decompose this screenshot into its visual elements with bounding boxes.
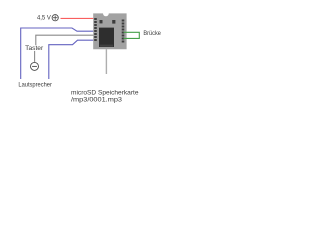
wire gray button to module	[36, 35, 95, 45]
svg-text:/mp3/0001.mp3: /mp3/0001.mp3	[71, 96, 123, 103]
smd part left	[100, 20, 103, 23]
module DFPlayer body	[93, 13, 126, 49]
right pin header	[122, 20, 125, 43]
wire red VCC	[61, 17, 95, 19]
wire blue speaker lead A	[21, 28, 95, 79]
wire green jumper Bruecke	[124, 32, 140, 38]
svg-text:microSD Speicherkarte: microSD Speicherkarte	[71, 89, 139, 96]
wire gray microSD pointer	[105, 49, 107, 74]
svg-text:4,5 V: 4,5 V	[37, 15, 51, 21]
battery minus terminal	[31, 62, 39, 70]
left pin header	[94, 18, 97, 41]
battery plus terminal	[52, 15, 58, 21]
svg-text:Lautsprecher: Lautsprecher	[18, 83, 52, 89]
svg-text:Brücke: Brücke	[143, 31, 161, 37]
wire blue speaker lead B	[49, 40, 95, 79]
smd part right	[112, 20, 115, 24]
chip microSD slot	[99, 28, 114, 47]
wire gray button to minus	[34, 51, 36, 62]
